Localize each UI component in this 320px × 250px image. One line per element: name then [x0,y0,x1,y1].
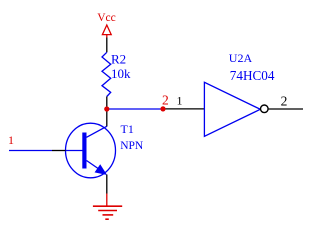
svg-text:T1: T1 [121,122,134,136]
svg-text:R2: R2 [111,52,126,67]
svg-text:74HC04: 74HC04 [230,68,275,83]
svg-text:2: 2 [281,94,288,109]
svg-text:2: 2 [162,93,169,108]
svg-text:Vcc: Vcc [97,12,116,24]
svg-text:U2A: U2A [229,51,253,65]
svg-text:1: 1 [8,133,14,147]
svg-text:1: 1 [177,94,183,108]
svg-text:NPN: NPN [120,140,144,152]
svg-text:10k: 10k [111,66,131,81]
